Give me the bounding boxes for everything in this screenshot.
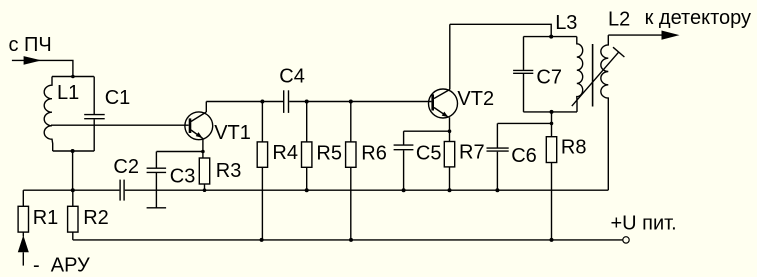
svg-text:VT2: VT2 [457, 88, 494, 110]
svg-text:C6: C6 [511, 145, 537, 167]
svg-text:R2: R2 [83, 207, 109, 229]
svg-text:L2: L2 [608, 8, 630, 30]
svg-text:C1: C1 [105, 87, 131, 109]
svg-text:R8: R8 [561, 137, 587, 159]
svg-text:VT1: VT1 [214, 122, 251, 144]
svg-text:R5: R5 [316, 142, 342, 164]
svg-text:с ПЧ: с ПЧ [9, 34, 52, 56]
svg-text:C2: C2 [113, 156, 139, 178]
svg-text:C4: C4 [279, 65, 305, 87]
svg-text:R4: R4 [272, 142, 298, 164]
svg-text:C7: C7 [536, 67, 562, 89]
svg-text:C3: C3 [170, 165, 196, 187]
svg-text:к детектору: к детектору [645, 7, 751, 29]
svg-text:- АРУ: - АРУ [33, 255, 90, 277]
svg-text:L3: L3 [555, 12, 577, 34]
svg-text:+U пит.: +U пит. [611, 212, 677, 234]
svg-text:C5: C5 [416, 142, 442, 164]
svg-text:R3: R3 [216, 160, 242, 182]
svg-text:L1: L1 [57, 82, 79, 104]
svg-text:R6: R6 [361, 142, 387, 164]
svg-text:R7: R7 [459, 142, 485, 164]
svg-text:R1: R1 [33, 207, 59, 229]
